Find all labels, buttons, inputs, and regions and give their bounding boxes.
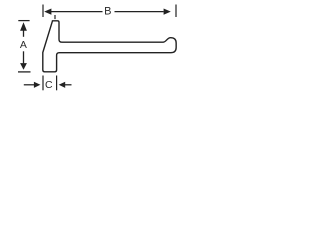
svg-text:B: B [104,6,111,18]
svg-text:A: A [20,39,27,51]
svg-text:C: C [45,79,53,91]
